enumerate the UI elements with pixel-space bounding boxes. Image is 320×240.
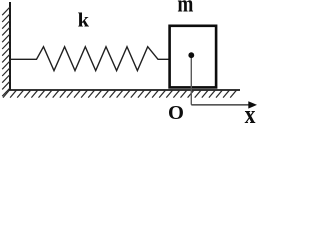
svg-text:O: O xyxy=(168,102,184,124)
spring k xyxy=(10,47,169,71)
svg-text:k: k xyxy=(78,10,90,32)
ground line xyxy=(9,89,240,91)
ground hatching xyxy=(3,90,237,97)
wall hatching xyxy=(2,7,10,96)
x axis arrowhead xyxy=(248,101,257,108)
svg-text:x: x xyxy=(245,100,256,125)
mass block m xyxy=(170,26,217,88)
center-of-mass dot xyxy=(188,52,194,58)
svg-text:m: m xyxy=(177,0,193,17)
vertical line from center of mass xyxy=(190,55,192,104)
wall xyxy=(9,2,11,90)
x axis xyxy=(191,104,250,106)
